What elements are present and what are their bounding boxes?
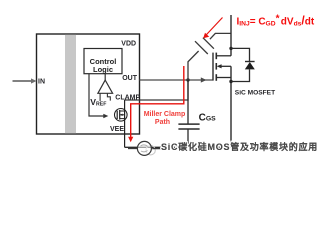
svg-text:VDD: VDD	[121, 41, 136, 48]
clamp FET body arrow	[120, 114, 125, 116]
body diode D1 triangle	[245, 62, 255, 69]
wire Cgd upper lead to drain	[210, 33, 231, 39]
SiC MOSFET source stub	[217, 77, 232, 79]
node gate junction dot	[186, 78, 189, 81]
arrowhead on gate wire	[201, 77, 207, 82]
svg-text:IN: IN	[38, 79, 45, 86]
watermark logo circle	[137, 141, 155, 155]
isolation barrier bar	[65, 35, 76, 134]
svg-text:CGS: CGS	[199, 112, 217, 123]
body diode D1 cathode bar	[245, 61, 255, 63]
red Miller clamp path polyline	[131, 66, 184, 139]
gate driver IC box U1	[37, 34, 140, 134]
clamp FET source stub	[120, 118, 125, 120]
watermark dash left	[128, 148, 137, 150]
wire clamp FET drain to CLAMP net and source to VEE rail	[124, 100, 126, 147]
wire gate node up to Cgd (diagonal lower lead)	[188, 51, 199, 80]
clamp FET drain stub	[120, 110, 125, 112]
wire VREF branch	[89, 74, 105, 116]
clamp FET gate bar	[116, 111, 118, 119]
svg-text:Path: Path	[155, 119, 170, 126]
SiC MOSFET body stub with arrow	[221, 65, 232, 67]
wire CLAMP net	[125, 80, 188, 100]
buffer/comparator triangle U2	[98, 80, 113, 93]
buffer input leg left	[99, 93, 101, 101]
red arrowhead down to VEE	[128, 137, 133, 143]
node drain-diode junction	[229, 47, 232, 50]
svg-text:SiC碳化硅MOS管及功率模块的应用: SiC碳化硅MOS管及功率模块的应用	[161, 141, 318, 152]
wire source vertical down	[230, 66, 232, 147]
watermark dash right	[152, 148, 161, 150]
wire drain vertical top	[230, 15, 232, 56]
wire bottom VEE/source rail	[125, 146, 231, 148]
svg-text:VEE: VEE	[110, 126, 124, 133]
SiC MOSFET channel segments	[215, 53, 217, 60]
svg-text:SiC MOSFET: SiC MOSFET	[235, 90, 275, 97]
wire OUT to gate node	[140, 79, 213, 81]
capacitor CGD plate 2	[203, 38, 214, 49]
capacitor CGS bottom lead	[187, 129, 189, 147]
clamp FET channel bar	[119, 110, 121, 120]
svg-text:VREF: VREF	[90, 97, 106, 107]
red arrow pointing at CGD	[206, 18, 223, 36]
control logic box	[84, 49, 122, 74]
buffer input leg right	[107, 93, 110, 100]
capacitor CGD plate 1	[195, 41, 208, 54]
svg-text:Miller Clamp: Miller Clamp	[144, 111, 186, 118]
wire body diode branch	[231, 48, 250, 81]
svg-text:Logic: Logic	[93, 65, 113, 74]
clamp transistor Q1 circle	[115, 109, 128, 122]
capacitor CGS plates	[178, 123, 199, 125]
svg-text:OUT: OUT	[122, 75, 138, 82]
wire IN input	[13, 80, 33, 82]
svg-text:IINJ= CGD*dVds/dt: IINJ= CGD*dVds/dt	[237, 13, 315, 27]
node source junction	[229, 80, 232, 83]
SiC MOSFET Q2 drain stub	[217, 55, 232, 57]
arrowhead to clamp FET gate	[103, 114, 108, 118]
SiC MOSFET gate bar	[212, 53, 214, 81]
wire control logic to buffer	[104, 74, 106, 81]
arrowhead IN	[31, 78, 37, 83]
capacitor CGS top lead	[187, 80, 189, 124]
